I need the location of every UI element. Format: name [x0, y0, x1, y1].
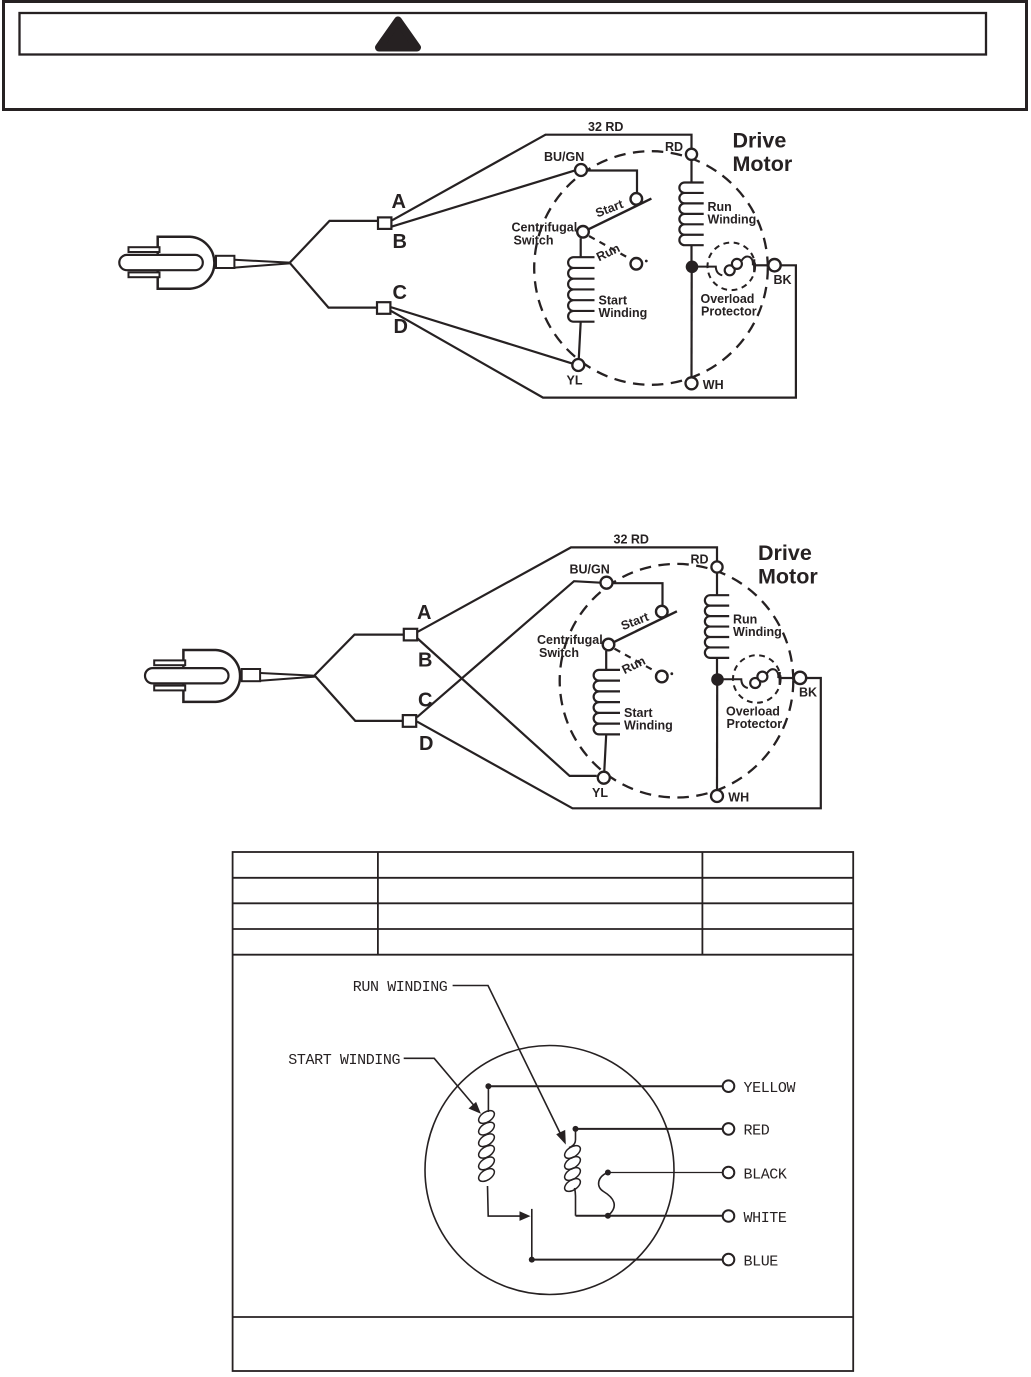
- junction node (M2): [711, 673, 724, 686]
- svg-text:BLUE: BLUE: [744, 1253, 779, 1270]
- run winding top lead: [569, 1129, 576, 1148]
- warning banner outer box: [4, 2, 1027, 110]
- svg-text:32 RD: 32 RD: [588, 120, 623, 134]
- wire junction to WH (M1): [690, 271, 692, 377]
- svg-text:YELLOW: YELLOW: [744, 1080, 796, 1097]
- terminal YL (M1): [572, 359, 584, 371]
- svg-text:B: B: [418, 650, 432, 672]
- wire 32 RD top run to RD terminal (M2): [571, 547, 718, 560]
- svg-text:WHITE: WHITE: [744, 1210, 787, 1227]
- svg-text:32 RD: 32 RD: [614, 533, 649, 547]
- wire junction to overload protector (M1): [697, 267, 722, 276]
- power plug P1 body: [158, 237, 215, 289]
- wire D to BK via bottom run (1): [390, 265, 796, 397]
- overload protector contact a (M2): [750, 678, 760, 688]
- svg-text:RD: RD: [665, 140, 683, 154]
- overload protector dashed outline (M1): [708, 242, 756, 290]
- node blue junction: [529, 1257, 535, 1263]
- svg-text:A: A: [417, 602, 431, 624]
- svg-text:RD: RD: [691, 553, 709, 567]
- terminal block A-B (2): [404, 629, 417, 641]
- plug P1 cord connector: [216, 256, 234, 268]
- svg-text:YL: YL: [567, 374, 583, 388]
- start winding coil (lead diagram): [476, 1108, 496, 1126]
- centrifugal switch arm (M2): [608, 611, 677, 645]
- table row line 3: [233, 928, 854, 930]
- terminal RED: [723, 1123, 735, 1135]
- run winding coil (lead diagram): [562, 1143, 582, 1161]
- switch pivot (M1): [577, 226, 589, 238]
- svg-text:A: A: [392, 191, 406, 213]
- svg-text:START WINDING: START WINDING: [288, 1052, 400, 1069]
- terminal block C-D (2): [403, 715, 416, 727]
- terminal block C-D (1): [377, 302, 390, 314]
- wire 32 RD top run to RD terminal (M1): [545, 135, 692, 148]
- start contact (M2): [656, 606, 668, 618]
- svg-text:BU/GN: BU/GN: [570, 563, 610, 577]
- terminal BLUE: [723, 1254, 735, 1266]
- run winding bottom lead: [575, 1188, 576, 1216]
- wire blue: [532, 1259, 723, 1261]
- warning triangle icon: [379, 21, 417, 48]
- terminal BU/GN (M2): [601, 577, 613, 589]
- table column line 1: [377, 852, 379, 955]
- svg-text:BK: BK: [799, 686, 817, 700]
- terminal RD (M1): [686, 149, 697, 160]
- start winding lead down: [487, 1086, 489, 1112]
- wire junction to WH (M2): [716, 684, 718, 790]
- run contact (M2): [656, 671, 668, 683]
- svg-text:D: D: [419, 733, 433, 755]
- wire red: [576, 1128, 723, 1130]
- overload protector contact b (M2): [757, 672, 767, 682]
- wire BU/GN to start contact (M1): [588, 171, 638, 195]
- wire B to 32 RD line (1): [391, 135, 545, 221]
- run contact dot (M1): [645, 260, 648, 263]
- plug P2 cord: [260, 673, 315, 681]
- svg-text:YL: YL: [592, 786, 608, 800]
- plug P2 ground pin: [145, 668, 229, 683]
- node white junction: [605, 1213, 611, 1219]
- leader line RUN WINDING: [453, 986, 562, 1137]
- terminal WH (M2): [711, 790, 723, 802]
- centrifugal switch arm (M1): [583, 199, 652, 233]
- node yellow junction: [485, 1083, 491, 1089]
- node black junction: [605, 1170, 611, 1176]
- terminal WH (M1): [686, 377, 698, 389]
- svg-text:Winding: Winding: [599, 306, 648, 320]
- run winding coil (M1): [679, 161, 703, 261]
- table column line 2: [701, 852, 703, 955]
- svg-text:BLACK: BLACK: [744, 1166, 787, 1183]
- svg-text:RUN WINDING: RUN WINDING: [353, 979, 448, 996]
- svg-text:Protector: Protector: [701, 304, 757, 318]
- cord branch to terminals C-D (2): [315, 675, 403, 721]
- svg-text:Switch: Switch: [514, 234, 554, 248]
- overload protector dashed outline (M2): [733, 655, 781, 703]
- svg-text:Drive: Drive: [758, 541, 812, 565]
- svg-text:C: C: [393, 282, 407, 304]
- overload protector heater loop (M1): [742, 257, 753, 266]
- svg-text:WH: WH: [703, 378, 724, 392]
- svg-text:WH: WH: [728, 791, 749, 805]
- terminal block A-B (1): [378, 217, 391, 229]
- terminal RD (M2): [711, 561, 722, 572]
- terminal WHITE: [723, 1210, 735, 1222]
- wire A to 32 RD line (2): [417, 547, 571, 632]
- run contact dot (M2): [670, 672, 673, 675]
- cord branch to terminals A-B (1): [290, 221, 378, 263]
- svg-text:Centrifugal: Centrifugal: [512, 221, 578, 235]
- cord branch to terminals A-B (2): [315, 635, 404, 676]
- terminal BLACK: [723, 1167, 735, 1179]
- power plug P2 body: [183, 650, 240, 702]
- wire junction to overload protector (M2): [723, 679, 748, 688]
- wire white: [576, 1215, 723, 1217]
- svg-text:Drive: Drive: [733, 129, 787, 153]
- terminal YL (M2): [598, 772, 610, 784]
- svg-text:BK: BK: [774, 273, 792, 287]
- dashed run contact wire (M2): [615, 649, 656, 672]
- plug P2 cord connector: [242, 669, 260, 681]
- terminal YELLOW: [723, 1080, 735, 1092]
- leader line START WINDING: [404, 1058, 474, 1105]
- terminal BU/GN (M1): [575, 164, 587, 176]
- overload protector heater loop (M2): [767, 669, 778, 678]
- plug P1 top prong: [129, 247, 160, 252]
- wire D to BK via bottom run (2): [417, 678, 821, 808]
- cord branch to terminals C-D (1): [290, 263, 377, 308]
- warning banner inner box: [20, 13, 987, 55]
- run contact (M1): [631, 258, 643, 270]
- svg-text:B: B: [393, 231, 407, 253]
- wire C to YL (1): [390, 307, 572, 363]
- start winding bottom lead: [488, 1186, 525, 1216]
- overload protector contact b (M1): [732, 259, 742, 269]
- plug P1 bottom prong: [129, 272, 160, 277]
- switch pivot (M2): [603, 639, 615, 651]
- svg-text:RED: RED: [744, 1123, 770, 1140]
- plug P2 bottom prong: [154, 686, 185, 691]
- plug P1 ground pin: [119, 255, 203, 270]
- svg-text:Centrifugal: Centrifugal: [537, 633, 603, 647]
- plug P1 cord: [235, 260, 290, 268]
- svg-text:Winding: Winding: [624, 719, 673, 733]
- svg-text:Motor: Motor: [733, 152, 793, 176]
- black-to-white S curve: [599, 1173, 615, 1216]
- table bottom line: [233, 954, 854, 956]
- blue drop stub: [531, 1209, 533, 1260]
- specification table and lower panel outline: [233, 852, 854, 1371]
- terminal BK (M2): [794, 672, 806, 684]
- wire overload to BK (M1): [753, 264, 768, 266]
- svg-text:Motor: Motor: [758, 565, 818, 589]
- overload protector contact a (M1): [725, 265, 735, 275]
- svg-text:Winding: Winding: [708, 213, 757, 227]
- leader arrowhead START WINDING: [469, 1102, 481, 1114]
- svg-text:Switch: Switch: [539, 646, 579, 660]
- svg-text:Winding: Winding: [733, 625, 782, 639]
- wire yellow: [488, 1085, 722, 1087]
- svg-text:C: C: [418, 690, 432, 712]
- start contact (M1): [631, 193, 643, 205]
- wire C to BU/GN (2): [417, 581, 601, 717]
- wire BU/GN to start contact (M2): [613, 583, 663, 607]
- leader arrowhead RUN WINDING: [556, 1130, 566, 1145]
- run winding coil (M2): [705, 573, 729, 673]
- drive motor M2 dashed outline: [560, 564, 794, 798]
- svg-text:Protector: Protector: [727, 717, 783, 731]
- overload protector heater bar (M2): [779, 672, 781, 685]
- wire black (thin): [608, 1172, 723, 1174]
- start winding coil (M2): [594, 651, 620, 771]
- junction node (M1): [686, 261, 699, 274]
- motor body circle: [425, 1046, 674, 1295]
- wire B to YL (2): [417, 638, 597, 776]
- arrowhead start-to-blue: [520, 1211, 531, 1221]
- wire B to BU/GN (1): [391, 170, 575, 226]
- overload protector heater bar (M1): [753, 259, 755, 272]
- table row line 1: [233, 877, 854, 879]
- node red junction: [573, 1126, 579, 1132]
- dashed run contact wire (M1): [589, 236, 630, 259]
- drive motor M1 dashed outline: [534, 151, 768, 385]
- panel footer line: [233, 1316, 854, 1318]
- plug P2 top prong: [154, 660, 185, 665]
- start winding coil (M1): [568, 238, 594, 358]
- wire overload to BK (M2): [779, 677, 794, 679]
- terminal BK (M1): [768, 259, 780, 271]
- svg-text:BU/GN: BU/GN: [544, 150, 584, 164]
- table row line 2: [233, 902, 854, 904]
